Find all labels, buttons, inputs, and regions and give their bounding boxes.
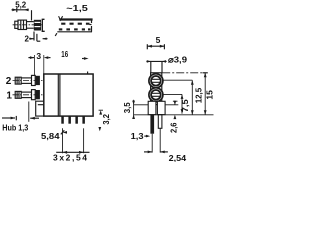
hub dimension arrows <box>2 116 39 120</box>
attach line 7,5 <box>163 93 182 95</box>
svg-text:Hub 1,3: Hub 1,3 <box>2 123 28 133</box>
dimension 5,2 <box>12 8 32 21</box>
svg-text:7,5: 7,5 <box>180 99 190 112</box>
side view pin squares <box>148 101 165 114</box>
dimension d3,9 <box>146 60 166 73</box>
svg-text:2: 2 <box>6 76 12 87</box>
long lower line <box>134 114 214 116</box>
svg-text:2,6: 2,6 <box>168 122 178 133</box>
hub extension line <box>28 102 30 122</box>
svg-text:12,5: 12,5 <box>193 88 203 104</box>
dim line 7,5 <box>181 94 184 113</box>
knurled shaft top view (hatched box) <box>55 16 92 36</box>
comma tick below left <box>55 33 57 36</box>
side body bottom line <box>134 104 149 106</box>
dimension 2 (detail) <box>29 32 47 42</box>
knurl dashes row2 <box>59 28 91 30</box>
attach line 15 (dash-dot) <box>162 72 205 74</box>
front view pins <box>61 116 85 124</box>
dimension 3x2,54 <box>56 151 89 154</box>
svg-text:3,2: 3,2 <box>101 114 111 125</box>
svg-text:15: 15 <box>205 90 214 100</box>
detail view plunger (top left) <box>13 19 45 31</box>
detail shaft <box>27 21 34 23</box>
inner double line <box>57 74 59 116</box>
attach line 12,5 <box>163 79 192 81</box>
detail collar box <box>18 20 27 29</box>
detail bushing dark <box>34 20 41 31</box>
plunger 2 (upper) <box>13 75 44 85</box>
notch bottom-left of body <box>36 101 44 116</box>
knurl dashes row1 <box>61 23 89 25</box>
dim line 15 <box>203 73 208 115</box>
detail centerline <box>13 24 42 26</box>
svg-text:5,84: 5,84 <box>41 131 60 141</box>
svg-text:5: 5 <box>156 35 161 45</box>
detail tip box <box>15 21 18 28</box>
svg-text:~1,5: ~1,5 <box>66 4 88 13</box>
dimension 16 (top) <box>82 57 89 60</box>
svg-text:⌀3,9: ⌀3,9 <box>168 55 187 65</box>
svg-text:2,54: 2,54 <box>169 153 187 162</box>
side view circle 2 <box>149 88 163 102</box>
plunger 1 (lower) <box>13 90 44 100</box>
dim 3,2 rotated (pin length) <box>98 110 103 131</box>
dimension 5,84 arrow <box>61 130 67 134</box>
side view pins <box>150 115 154 134</box>
pin extension lines <box>62 128 64 153</box>
dimension 5 (side top) <box>147 44 164 49</box>
dimension 3 (top) <box>28 55 50 75</box>
svg-text:16: 16 <box>61 49 68 59</box>
side view circle 1 <box>149 74 163 88</box>
dimension 1,3 (pin width) <box>144 135 150 138</box>
dimension 2,54 (side bottom) <box>144 128 168 153</box>
V mark <box>59 16 63 20</box>
dim line 12,5 <box>191 80 194 115</box>
svg-text:1,3: 1,3 <box>131 131 144 141</box>
detail body edge <box>42 19 44 31</box>
front view body <box>44 72 93 117</box>
dimension 3,5 (left of side view) <box>132 100 135 119</box>
svg-text:5,2: 5,2 <box>15 0 26 10</box>
side view tower <box>151 73 162 105</box>
svg-text:1: 1 <box>6 91 12 102</box>
svg-text:3,5: 3,5 <box>122 102 132 113</box>
svg-text:2: 2 <box>25 34 30 43</box>
dimension 2,6 (right of pins) <box>173 101 178 120</box>
svg-text:3: 3 <box>36 51 41 61</box>
